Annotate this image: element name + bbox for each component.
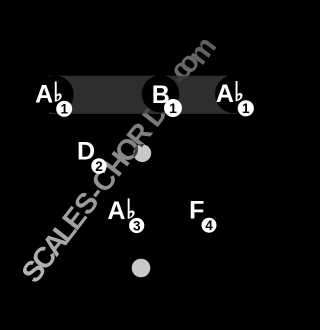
note label Ab left	[35, 80, 62, 108]
svg-text:4: 4	[205, 218, 213, 233]
svg-text:A: A	[216, 80, 234, 108]
svg-text:1: 1	[60, 102, 68, 117]
svg-text:A: A	[107, 197, 125, 225]
note label Ab right	[216, 80, 243, 108]
svg-text:1: 1	[169, 100, 177, 116]
note label Ab lower	[107, 197, 134, 225]
note marker circle Ab string6	[215, 75, 253, 113]
svg-text:D: D	[77, 137, 95, 165]
finger badge 3	[129, 218, 144, 234]
note marker circle Ab string1	[36, 76, 73, 113]
svg-text:A: A	[35, 80, 53, 108]
finger badge 4	[202, 218, 217, 233]
fret dot upper	[133, 144, 151, 162]
svg-text:2: 2	[95, 159, 103, 174]
svg-text:1: 1	[242, 101, 250, 116]
fret dot lower	[132, 259, 151, 278]
barre bar fret 1	[49, 76, 238, 114]
finger badge 1 middle	[164, 99, 182, 117]
note marker circle B string4	[142, 75, 179, 112]
watermark SCALES-CHORDS.com	[0, 0, 1, 1]
finger badge 1 left	[56, 101, 72, 117]
svg-text:F: F	[189, 197, 204, 225]
svg-text:3: 3	[133, 218, 141, 233]
finger badge 2	[91, 158, 106, 174]
finger badge 1 right	[238, 100, 254, 116]
